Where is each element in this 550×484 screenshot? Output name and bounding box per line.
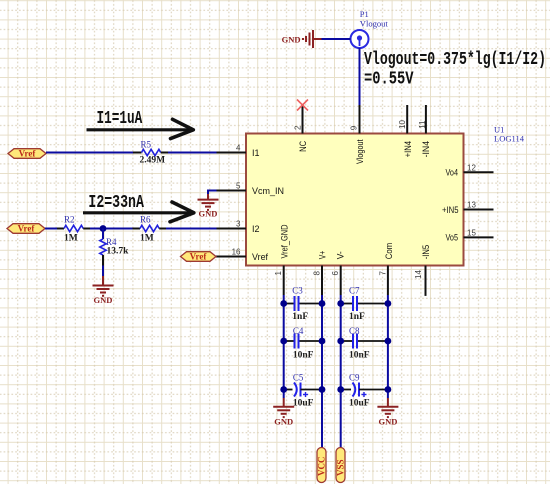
svg-text:Vlogout: Vlogout: [355, 139, 366, 164]
ground GND (right capacitor bank): [377, 398, 398, 427]
svg-text:VCC: VCC: [317, 457, 327, 477]
svg-text:Vlogout: Vlogout: [360, 19, 389, 29]
svg-text:Vref_GND: Vref_GND: [279, 224, 290, 258]
capacitor C5 (polarized): [284, 372, 322, 408]
junction node: [100, 225, 107, 232]
svg-text:=0.55V: =0.55V: [364, 69, 414, 89]
svg-text:10nF: 10nF: [349, 350, 370, 360]
wire GND to P1: [313, 38, 322, 40]
junction node (pin1/C4): [280, 338, 287, 345]
svg-text:GND: GND: [274, 417, 293, 427]
svg-text:GND: GND: [282, 35, 301, 45]
svg-text:11: 11: [418, 120, 427, 129]
power port VSS: [336, 448, 346, 483]
wire R6 to pin 3: [166, 228, 217, 230]
resistor R5: [133, 139, 168, 165]
svg-text:C3: C3: [292, 285, 303, 295]
capacitor C7: [341, 285, 388, 322]
svg-text:C4: C4: [293, 326, 304, 336]
svg-text:V-: V-: [336, 251, 347, 259]
svg-text:GND: GND: [94, 295, 113, 305]
capacitor C8: [341, 326, 388, 361]
svg-text:VSS: VSS: [336, 459, 346, 476]
svg-text:LOG114: LOG114: [494, 134, 525, 144]
pin 12 Vo4: [446, 163, 494, 178]
port Vref (row 1): [8, 149, 46, 159]
wire Vref to R2: [45, 228, 57, 230]
wire rail pin8 to VCC: [321, 295, 323, 448]
capacitor C9 (polarized): [341, 372, 388, 408]
svg-text:14: 14: [414, 270, 423, 279]
svg-text:V+: V+: [318, 250, 329, 259]
ground GND (left capacitor bank): [273, 398, 294, 427]
svg-text:+IN4: +IN4: [403, 141, 414, 158]
svg-text:15: 15: [467, 228, 476, 237]
pin 6 V-: [331, 251, 347, 295]
wire P1 down to pin 9: [359, 48, 361, 105]
svg-text:GND: GND: [199, 209, 218, 219]
svg-text:Vlogout=0.375*lg(I1/I2): Vlogout=0.375*lg(I1/I2): [364, 50, 546, 70]
pin 15 Vo5: [446, 228, 494, 243]
wire junction to R4: [102, 229, 104, 240]
wire R2 to R6: [90, 228, 133, 230]
svg-text:-IN4: -IN4: [421, 141, 432, 158]
svg-text:P1: P1: [360, 9, 369, 19]
junction node (pin6/C7): [337, 300, 344, 307]
svg-text:C9: C9: [349, 372, 360, 382]
svg-text:R2: R2: [64, 214, 75, 224]
svg-text:2: 2: [293, 125, 302, 130]
junction node (C5/pin8): [319, 386, 326, 393]
svg-text:1nF: 1nF: [349, 312, 365, 322]
junction node (C8/pin7): [385, 338, 392, 345]
svg-text:10nF: 10nF: [293, 350, 314, 360]
pin 7 Com: [378, 243, 395, 295]
pin 10 +IN4: [398, 105, 414, 157]
arrow I2: [83, 202, 194, 222]
svg-text:1M: 1M: [64, 233, 78, 243]
wire pin 5 to GND: [208, 191, 217, 195]
ground GND (at P1, rotated): [282, 30, 313, 48]
svg-text:Vref: Vref: [252, 252, 268, 263]
junction node (C4/pin8): [319, 338, 326, 345]
wire Vref to R5: [46, 152, 133, 154]
svg-text:Vcm_IN: Vcm_IN: [252, 186, 284, 197]
svg-text:Vo5: Vo5: [446, 233, 459, 244]
svg-text:Vref: Vref: [190, 252, 208, 262]
svg-text:9: 9: [349, 125, 358, 130]
ground GND (below R4): [93, 276, 114, 305]
svg-text:Vref: Vref: [18, 224, 36, 234]
svg-text:10: 10: [398, 120, 407, 129]
pin 13 +IN5: [442, 201, 494, 216]
svg-text:Vo4: Vo4: [446, 168, 459, 179]
power port VCC: [317, 448, 327, 483]
wire R5 to pin 4: [168, 152, 217, 154]
pin 1 Vref_GND: [274, 224, 290, 295]
connector P1: [351, 9, 389, 48]
svg-text:NC: NC: [298, 141, 309, 152]
pin 8 V+: [313, 250, 329, 295]
svg-text:10uF: 10uF: [349, 399, 370, 409]
svg-text:3: 3: [236, 220, 241, 229]
pin 2 NC: [293, 105, 309, 152]
svg-text:5: 5: [236, 182, 241, 191]
svg-text:Vref: Vref: [19, 149, 37, 159]
no-connect X marker on pin 2: [297, 100, 308, 111]
svg-text:R4: R4: [106, 237, 117, 247]
svg-text:I2: I2: [252, 224, 260, 235]
junction node (pin6/C8): [337, 338, 344, 345]
svg-text:R6: R6: [140, 214, 151, 224]
port Vref (row 2): [7, 224, 45, 234]
pin 16 Vref: [216, 248, 268, 263]
svg-text:2.49M: 2.49M: [140, 155, 166, 165]
svg-text:1: 1: [274, 271, 283, 276]
svg-text:10uF: 10uF: [293, 399, 314, 409]
resistor R6: [133, 214, 167, 243]
pin 5 Vcm_IN: [217, 182, 285, 197]
svg-text:I1: I1: [252, 148, 260, 159]
junction node (C7/pin7): [385, 300, 392, 307]
junction node (C3/pin8): [319, 300, 326, 307]
pin 11 -IN4: [418, 105, 432, 157]
arrow I1: [87, 119, 194, 138]
svg-text:C5: C5: [293, 372, 304, 382]
svg-text:1M: 1M: [140, 233, 154, 243]
ground GND (Vcm_IN): [198, 194, 219, 219]
wire R4 to GND: [102, 255, 104, 276]
svg-text:7: 7: [378, 271, 387, 276]
svg-text:13: 13: [467, 201, 476, 210]
pin 3 I2: [217, 220, 260, 235]
svg-text:I1=1uA: I1=1uA: [97, 109, 143, 129]
pin 14 -IN5: [414, 245, 432, 296]
port Vref (pin 16): [181, 252, 217, 262]
svg-text:1nF: 1nF: [292, 312, 308, 322]
junction node (pin1/C5): [280, 386, 287, 393]
wire rail pin1 to GND: [283, 295, 285, 398]
resistor R4: [100, 237, 129, 257]
svg-text:GND: GND: [378, 417, 397, 427]
svg-text:Com: Com: [384, 243, 395, 260]
wire rail pin7 to GND: [387, 295, 389, 398]
pin 9 Vlogout: [349, 105, 366, 164]
svg-text:C7: C7: [349, 285, 360, 295]
svg-text:I2=33nA: I2=33nA: [88, 193, 144, 213]
svg-text:C8: C8: [349, 326, 360, 336]
svg-text:6: 6: [331, 271, 340, 276]
svg-text:+IN5: +IN5: [442, 205, 459, 216]
svg-text:12: 12: [467, 163, 476, 172]
resistor R2: [57, 214, 90, 243]
op-amp IC U1 body: [246, 134, 464, 266]
svg-text:R5: R5: [141, 139, 152, 149]
capacitor C3: [284, 285, 322, 322]
pin 4 I1: [217, 144, 260, 159]
junction node (pin6/C9): [337, 386, 344, 393]
wire rail pin6 to VSS: [340, 295, 342, 448]
junction node (pin1/C3): [280, 300, 287, 307]
svg-text:13.7k: 13.7k: [107, 247, 130, 257]
capacitor C4: [284, 326, 322, 361]
svg-text:8: 8: [313, 271, 322, 276]
svg-text:16: 16: [232, 248, 241, 257]
svg-text:4: 4: [236, 144, 241, 153]
junction node (C9/pin7): [385, 386, 392, 393]
svg-text:-IN5: -IN5: [421, 245, 432, 260]
